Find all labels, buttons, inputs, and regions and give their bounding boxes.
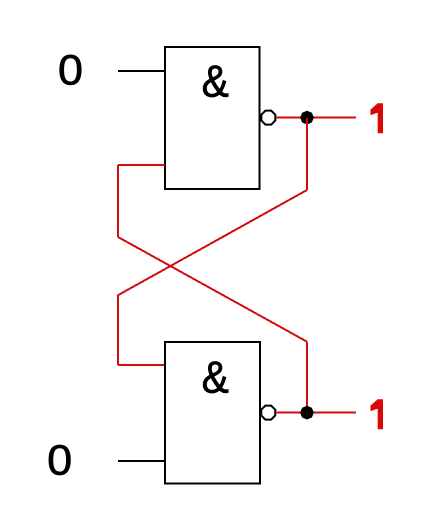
junction node Q (top)	[300, 111, 314, 125]
wire: Q feedback down from junction	[306, 118, 308, 190]
label & of U2	[203, 361, 228, 393]
NAND gate U2 (bottom) body	[165, 342, 260, 484]
label 1 (output Q)	[371, 103, 384, 133]
label 1 (output Qbar)	[371, 399, 384, 429]
wire: Q feedback into U2 pin 1	[118, 364, 165, 366]
wire: input R (bottom gate pin 2)	[118, 460, 165, 462]
wire: input S (top gate pin 1)	[118, 70, 165, 72]
wire: Qbar feedback vertical upper left side	[117, 165, 119, 237]
junction node Qbar (bottom)	[300, 406, 314, 420]
label & of U1	[203, 65, 228, 97]
wire: Q feedback vertical down left side	[117, 295, 119, 365]
inversion bubble of U1	[261, 111, 275, 125]
NAND gate U1 (top) body	[165, 47, 260, 189]
wire: U1 output to label (red, net Q)	[276, 117, 356, 119]
inversion bubble of U2	[261, 406, 275, 420]
label 0 (input R)	[49, 445, 71, 475]
wire: Q feedback diagonal to lower-left	[118, 190, 307, 295]
wire: Qbar feedback down to junction	[306, 342, 308, 412]
wire: Qbar feedback into U1 pin 2	[118, 164, 165, 166]
wire: U2 output to label (red, net Qbar)	[276, 412, 356, 414]
label 0 (input S)	[60, 55, 82, 85]
wire: Qbar feedback diagonal to lower-right	[118, 237, 307, 342]
